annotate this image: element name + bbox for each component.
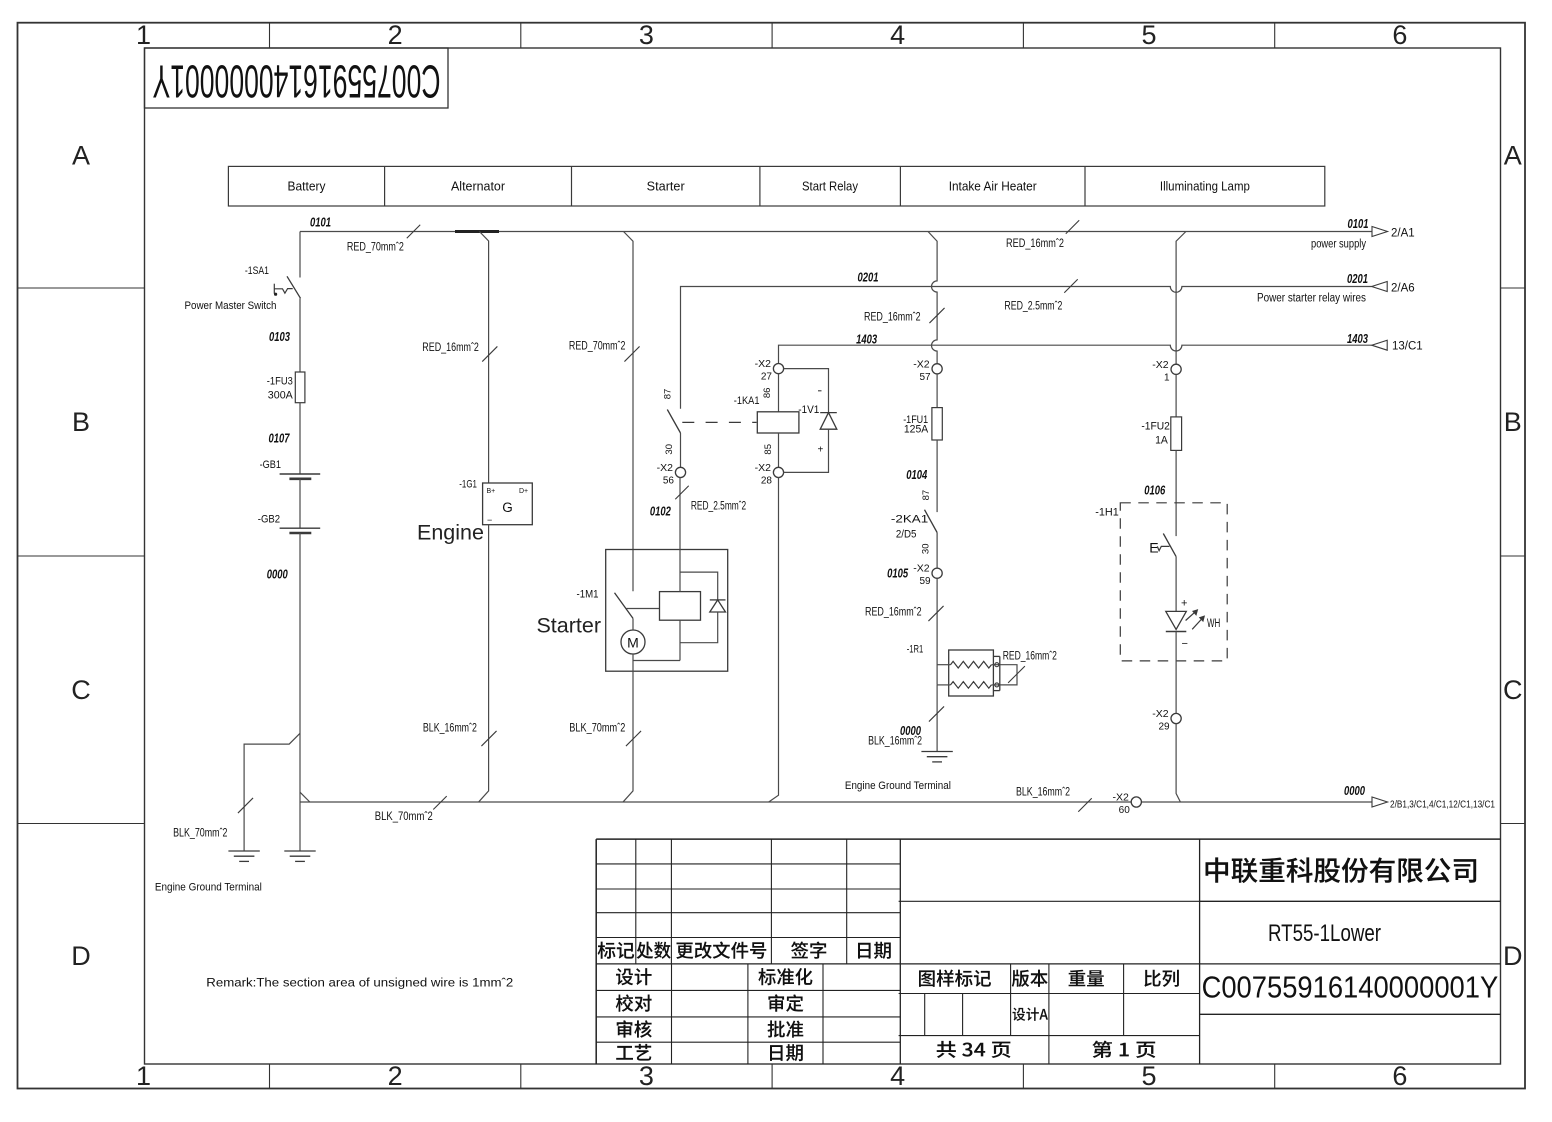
mechanical link dashed 1KA1 <box>682 421 756 423</box>
svg-text:2/B1,3/C1,4/C1,12/C1,13/C1: 2/B1,3/C1,4/C1,12/C1,13/C1 <box>1390 800 1495 811</box>
svg-text:1: 1 <box>136 1061 151 1091</box>
wire gauge slash alternator ground <box>481 731 496 746</box>
battery GB1 <box>280 473 321 475</box>
title block grid <box>596 839 1500 1064</box>
svg-text:-1R1: -1R1 <box>907 644 924 656</box>
svg-text:A: A <box>72 140 90 170</box>
svg-text:57: 57 <box>919 372 931 383</box>
wire 0101 to starter <box>624 232 634 592</box>
wire gauge slash heater top <box>929 308 944 323</box>
svg-text:-X2: -X2 <box>913 358 930 370</box>
function box divider <box>1084 166 1086 206</box>
svg-text:BLK_70mmˆ2: BLK_70mmˆ2 <box>569 723 625 735</box>
label bilie <box>1144 970 1179 987</box>
diode in starter <box>710 600 726 612</box>
svg-text:125A: 125A <box>904 423 929 435</box>
svg-text:−: − <box>487 515 492 525</box>
svg-text:-1FU2: -1FU2 <box>1141 421 1170 433</box>
svg-text:B: B <box>72 407 90 437</box>
wire motor to ground bus <box>623 654 633 802</box>
alternator G1 generator box <box>483 483 533 525</box>
wire branch to left ground <box>244 733 300 851</box>
connector terminal -X2 pin 56 <box>675 467 685 477</box>
svg-text:RED_70mmˆ2: RED_70mmˆ2 <box>569 341 626 353</box>
ground engine terminal heater <box>921 752 952 762</box>
starter solenoid coil <box>660 592 701 621</box>
svg-text:power supply: power supply <box>1311 239 1366 251</box>
label chushu <box>637 942 671 959</box>
relay coil 1KA1 <box>757 412 799 433</box>
wire 0101 to heater (hops 0201 and 1403) <box>928 232 937 364</box>
svg-text:A: A <box>1504 140 1522 170</box>
label banben <box>1012 970 1048 987</box>
wire between batteries <box>299 479 301 528</box>
battery GB2 <box>280 527 321 529</box>
svg-text:60: 60 <box>1119 805 1131 816</box>
wire heater resistor jumper loop <box>1000 665 1017 685</box>
svg-text:-X2: -X2 <box>1112 792 1129 804</box>
svg-text:Battery: Battery <box>288 180 327 194</box>
svg-text:G: G <box>502 500 513 515</box>
svg-text:3: 3 <box>639 1061 654 1091</box>
wire gauge slash left ground <box>238 798 253 813</box>
svg-text:0201: 0201 <box>858 271 879 285</box>
svg-text:D: D <box>1503 941 1523 971</box>
svg-text:0105: 0105 <box>887 567 909 581</box>
svg-text:29: 29 <box>1158 722 1170 733</box>
wire 0101 to master switch <box>299 232 301 278</box>
wire diode to coil bottom <box>680 612 718 643</box>
svg-text:Power starter relay wires: Power starter relay wires <box>1257 293 1366 305</box>
svg-text:BLK_70mmˆ2: BLK_70mmˆ2 <box>173 828 227 840</box>
label gongyi <box>616 1044 651 1061</box>
svg-text:-1SA1: -1SA1 <box>245 265 269 277</box>
svg-text:-1V1: -1V1 <box>798 404 819 416</box>
svg-text:C: C <box>1503 675 1523 705</box>
label shending <box>768 994 803 1012</box>
wire 0102 to starter solenoid <box>679 477 681 591</box>
wire alternator ground <box>479 525 489 802</box>
wire X2:57 to fuse <box>936 374 938 408</box>
company name Zoomlion <box>1206 857 1477 883</box>
svg-text:D: D <box>71 941 91 971</box>
label genggai wenjianhao <box>676 942 766 959</box>
svg-text:RED_2.5mmˆ2: RED_2.5mmˆ2 <box>691 501 746 513</box>
svg-text:RED_16mmˆ2: RED_16mmˆ2 <box>422 342 479 354</box>
connector terminal -X2 pin 28 <box>773 467 783 477</box>
wire coil pin 85 to X2:28 <box>778 433 780 468</box>
svg-text:Illuminating Lamp: Illuminating Lamp <box>1160 180 1250 194</box>
fuse 1FU2 1A <box>1171 417 1182 451</box>
svg-text:1403: 1403 <box>856 333 877 347</box>
label sheji <box>616 968 652 985</box>
svg-text:1: 1 <box>1164 372 1170 383</box>
column tick top <box>269 23 271 48</box>
svg-text:1A: 1A <box>1155 435 1168 447</box>
svg-text:28: 28 <box>761 475 773 486</box>
svg-text:Start Relay: Start Relay <box>802 180 859 194</box>
svg-text:87: 87 <box>921 490 932 501</box>
label biaoji <box>598 942 635 959</box>
connector terminal -X2 pin 59 <box>932 568 942 578</box>
svg-text:WH: WH <box>1207 618 1220 630</box>
wire branch to bus 0000 <box>300 792 310 802</box>
off-page arrow 0201 from 2/A6 <box>1372 282 1388 292</box>
row separator right <box>1501 823 1526 825</box>
svg-text:300A: 300A <box>268 390 294 402</box>
label shejiA <box>1013 1007 1049 1021</box>
svg-text:Power Master Switch: Power Master Switch <box>185 300 277 312</box>
wire bus 1403 <box>779 345 1372 364</box>
off-page arrow 0000 to 2/B1... <box>1372 797 1388 807</box>
svg-text:13/C1: 13/C1 <box>1392 341 1423 353</box>
svg-text:6: 6 <box>1392 1061 1407 1091</box>
lamp switch E <box>1149 534 1176 557</box>
column tick bottom <box>1274 1064 1276 1089</box>
svg-text:27: 27 <box>761 372 773 383</box>
svg-text:M: M <box>627 635 639 651</box>
svg-text:C: C <box>71 675 91 705</box>
svg-text:-GB2: -GB2 <box>258 514 280 526</box>
svg-text:0101: 0101 <box>310 216 331 230</box>
document number box (rotated) <box>145 48 449 108</box>
connector terminal -X2 pin 27 <box>773 364 783 374</box>
connector terminal -X2 pin 29 <box>1171 713 1181 723</box>
svg-text:-X2: -X2 <box>657 462 674 474</box>
row separator left <box>18 287 145 289</box>
svg-text:2/A6: 2/A6 <box>1391 283 1415 295</box>
off-page arrow 1403 from 13/C1 <box>1372 340 1388 350</box>
wire motor bottom tie <box>633 660 680 662</box>
lamp unit 1H1 dashed enclosure <box>1120 503 1227 661</box>
wire 0104 <box>936 440 938 512</box>
label gong 34 ye <box>937 1041 1011 1058</box>
svg-text:C00755916140000001Y: C00755916140000001Y <box>153 55 441 107</box>
wire 0101 thick segment <box>455 230 499 233</box>
ground engine terminal 2 <box>284 851 315 861</box>
connector terminal -X2 pin 60 <box>1131 797 1141 807</box>
svg-text:-1FU3: -1FU3 <box>267 376 293 388</box>
function box divider <box>899 166 901 206</box>
svg-text:Starter: Starter <box>647 180 685 194</box>
svg-text:5: 5 <box>1141 20 1156 50</box>
svg-text:4: 4 <box>890 1061 905 1091</box>
row separator right <box>1501 555 1526 557</box>
svg-text:-X2: -X2 <box>755 358 772 370</box>
svg-text:59: 59 <box>919 576 931 587</box>
starter M1 box <box>606 550 728 672</box>
label riqi header <box>858 942 891 959</box>
starter switch contact <box>615 593 634 619</box>
wire 0101 to lamp <box>1176 232 1186 365</box>
wire gauge slash starter ground <box>626 731 641 746</box>
starter motor M <box>621 630 645 654</box>
svg-text:RED_70mmˆ2: RED_70mmˆ2 <box>347 242 404 254</box>
svg-text:5: 5 <box>1141 1061 1156 1091</box>
row separator left <box>18 555 145 557</box>
heater relay contact 2KA1 blade <box>925 510 938 533</box>
svg-text:B+: B+ <box>487 488 496 495</box>
wire 0101 to alternator <box>479 232 488 484</box>
svg-text:+: + <box>1181 598 1187 610</box>
column tick top <box>1022 23 1024 48</box>
svg-text:0102: 0102 <box>650 505 671 519</box>
switch 1SA1 power master switch <box>274 276 301 298</box>
svg-text:2: 2 <box>388 1061 403 1091</box>
wire bus 0201 starter relay <box>681 287 1372 409</box>
wire 0106 <box>1175 450 1177 536</box>
svg-text:Remark:The section area of uns: Remark:The section area of unsigned wire… <box>206 976 513 990</box>
label di 1 ye <box>1092 1041 1155 1058</box>
LED lamp symbol <box>1166 598 1221 651</box>
wire 0000 battery negative <box>299 533 301 851</box>
svg-text:C00755916140000001Y: C00755916140000001Y <box>1202 970 1499 1005</box>
wire contact to X2:56 <box>680 433 682 468</box>
svg-text:RT55-1Lower: RT55-1Lower <box>1268 920 1381 947</box>
svg-text:BLK_16mmˆ2: BLK_16mmˆ2 <box>1016 787 1070 799</box>
svg-text:6: 6 <box>1392 20 1407 50</box>
svg-text:-1G1: -1G1 <box>459 478 477 490</box>
function box divider <box>759 166 761 206</box>
label qianzi <box>791 942 826 959</box>
wire gauge slash starter <box>624 346 639 361</box>
label pizhun <box>768 1020 804 1037</box>
fuse 1FU1 125A <box>932 408 942 440</box>
inner drawing frame <box>145 48 1501 1064</box>
wire heater resistor to ground <box>936 685 938 752</box>
wire X2:1 to fuse 1FU2 <box>1175 374 1177 417</box>
svg-text:0106: 0106 <box>1144 484 1166 498</box>
label tuyang biaoji <box>919 970 991 987</box>
wire gauge slash 0000 right <box>1078 798 1091 811</box>
svg-text:B: B <box>1504 407 1522 437</box>
wire gauge slash 0000 left <box>433 796 446 809</box>
svg-text:+: + <box>818 445 824 456</box>
svg-text:-X2: -X2 <box>1152 708 1169 720</box>
svg-text:4: 4 <box>890 20 905 50</box>
svg-text:0101: 0101 <box>1348 217 1369 231</box>
svg-text:86: 86 <box>762 388 773 399</box>
wire gauge slash 0101 right <box>1066 220 1079 233</box>
column tick bottom <box>269 1064 271 1089</box>
function box divider <box>384 166 386 206</box>
wire X2:28 to ground bus <box>769 477 779 802</box>
function header boxes <box>228 166 1324 206</box>
ground engine terminal 1 <box>228 851 259 861</box>
svg-text:0104: 0104 <box>906 468 927 482</box>
wire gauge slash 0201 <box>1064 279 1077 292</box>
svg-text:RED_16mmˆ2: RED_16mmˆ2 <box>864 312 921 324</box>
heater resistor 1R1 <box>937 650 1000 696</box>
wire gauge slash heater loop <box>1008 666 1025 683</box>
svg-text:-X2: -X2 <box>913 563 930 575</box>
svg-text:-GB1: -GB1 <box>260 459 281 471</box>
label zhongliang <box>1069 970 1104 987</box>
svg-text:2/D5: 2/D5 <box>896 529 917 541</box>
wire gauge slash 0101 <box>407 225 420 238</box>
wire coil bottom <box>679 620 681 660</box>
svg-text:2: 2 <box>388 20 403 50</box>
column tick top <box>520 23 522 48</box>
diode 1V1 <box>783 369 836 473</box>
svg-text:2/A1: 2/A1 <box>1391 228 1415 240</box>
svg-text:0103: 0103 <box>269 330 290 344</box>
svg-text:87: 87 <box>663 389 674 400</box>
svg-text:Alternator: Alternator <box>451 180 505 194</box>
svg-text:RED_16mmˆ2: RED_16mmˆ2 <box>865 607 922 619</box>
wire gauge slash alternator <box>482 346 497 361</box>
svg-text:RED_16mmˆ2: RED_16mmˆ2 <box>1003 651 1057 663</box>
svg-text:-1KA1: -1KA1 <box>734 395 760 407</box>
svg-text:0000: 0000 <box>1344 784 1365 798</box>
relay contact 1KA1 blade <box>667 410 680 434</box>
svg-text:0201: 0201 <box>1347 272 1368 286</box>
column tick bottom <box>1022 1064 1024 1089</box>
wire switch to LED <box>1175 557 1177 612</box>
svg-text:Intake Air Heater: Intake Air Heater <box>949 180 1037 194</box>
connector terminal -X2 pin 57 <box>932 364 942 374</box>
svg-text:RED_2.5mmˆ2: RED_2.5mmˆ2 <box>1004 301 1062 313</box>
svg-text:Engine Ground Terminal: Engine Ground Terminal <box>155 882 262 894</box>
svg-text:0107: 0107 <box>269 432 291 446</box>
fuse 1FU3 300A <box>295 372 305 403</box>
svg-text:1: 1 <box>136 20 151 50</box>
row separator left <box>18 823 145 825</box>
svg-text:1403: 1403 <box>1347 332 1368 346</box>
wire X2:27 to coil pin 86 <box>778 374 780 412</box>
wire X2:59 to heater resistor <box>936 578 938 685</box>
wire contact to X2:59 <box>936 533 938 569</box>
wire gauge slash heater ground <box>929 706 944 721</box>
label riqi lower <box>770 1044 803 1061</box>
row separator right <box>1501 287 1526 289</box>
svg-text:-1H1: -1H1 <box>1095 507 1119 519</box>
column tick top <box>771 23 773 48</box>
wire bus 0000 ground <box>300 801 1372 803</box>
column tick top <box>1274 23 1276 48</box>
svg-text:BLK_70mmˆ2: BLK_70mmˆ2 <box>375 811 433 823</box>
svg-text:BLK_16mmˆ2: BLK_16mmˆ2 <box>868 736 922 748</box>
wire 0107 <box>299 403 301 474</box>
svg-text:30: 30 <box>664 444 675 455</box>
svg-text:−: − <box>1182 638 1188 650</box>
wire switch to motor <box>632 618 634 630</box>
column tick bottom <box>771 1064 773 1089</box>
label biaozhunhua <box>758 968 812 985</box>
svg-text:RED_16mmˆ2: RED_16mmˆ2 <box>1006 238 1064 250</box>
wire LED to X2:29 <box>1175 632 1177 714</box>
connector terminal -X2 pin 1 <box>1171 364 1181 374</box>
wire gauge slash 0102 <box>675 486 688 499</box>
svg-text:-2KA1: -2KA1 <box>891 514 928 526</box>
wire X2:29 to ground bus <box>1176 723 1180 802</box>
label shenhe <box>617 1020 652 1037</box>
off-page arrow 0101 to 2/A1 <box>1372 227 1388 237</box>
wire contact to solenoid coil <box>627 608 660 610</box>
svg-text:BLK_16mmˆ2: BLK_16mmˆ2 <box>423 723 477 735</box>
wire bus 0101 power supply <box>300 231 1372 233</box>
svg-text:Engine: Engine <box>417 521 484 545</box>
svg-text:56: 56 <box>663 475 675 486</box>
svg-text:D+: D+ <box>519 488 528 495</box>
svg-text:-X2: -X2 <box>1152 359 1169 371</box>
svg-text:-X2: -X2 <box>755 462 772 474</box>
wire 0103 <box>299 298 301 372</box>
function box divider <box>571 166 573 206</box>
wire gauge slash heater mid <box>928 606 943 621</box>
svg-text:0000: 0000 <box>267 568 288 582</box>
svg-text:85: 85 <box>763 444 774 455</box>
svg-text:Starter: Starter <box>536 614 601 638</box>
svg-text:Engine Ground Terminal: Engine Ground Terminal <box>845 780 951 792</box>
svg-text:-1M1: -1M1 <box>577 589 599 601</box>
wire solenoid branch <box>680 572 718 600</box>
column tick bottom <box>520 1064 522 1089</box>
svg-text:3: 3 <box>639 20 654 50</box>
svg-text:30: 30 <box>921 544 932 555</box>
label jiaodui <box>616 994 652 1011</box>
